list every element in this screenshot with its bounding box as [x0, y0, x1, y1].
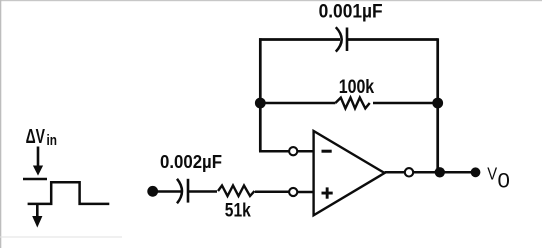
svg-text:ΔV: ΔV: [26, 126, 46, 148]
wire feedback top left segment: [259, 38, 340, 41]
resistor R2 100k: [335, 98, 369, 109]
output terminal node: [471, 167, 481, 177]
resistor R1 51k: [218, 186, 255, 197]
svg-text:0: 0: [498, 169, 510, 192]
wire R1 to noninverting input: [255, 191, 289, 194]
wire circle to op-amp - pin: [297, 150, 314, 153]
svg-text:0.001µF: 0.001µF: [319, 2, 383, 23]
capacitor C2 0.002µF: [177, 179, 188, 204]
noninverting input open circle: [289, 188, 297, 196]
svg-text:100k: 100k: [339, 76, 375, 98]
junction dot left of R2: [255, 98, 266, 109]
tick mark high-level bar: [23, 178, 47, 181]
wire output circle to feedback node: [413, 171, 441, 174]
wire 100k row left segment: [260, 102, 335, 105]
arrow lower (points down from baseline): [32, 204, 42, 228]
svg-text:51k: 51k: [225, 200, 251, 221]
inverting input open circle: [289, 147, 297, 155]
label ΔVin: [26, 126, 57, 149]
wire to inverting input: [259, 150, 289, 153]
svg-text:in: in: [47, 132, 58, 149]
wire 100k row right segment: [373, 102, 438, 105]
junction dot right of R2: [432, 98, 443, 109]
feedback output junction: [435, 167, 445, 177]
label Vo: [487, 163, 510, 192]
op-amp U1: [314, 131, 385, 215]
input step waveform: [28, 182, 110, 204]
svg-text:V: V: [487, 163, 497, 183]
wire C2 to R1: [189, 190, 217, 193]
wire feedback top right segment: [348, 38, 438, 41]
wire feedback right side down to output: [436, 38, 439, 172]
wire op-amp output to circle: [385, 171, 405, 174]
wire input terminal to C2: [153, 190, 181, 193]
wire junction to Vo terminal: [440, 171, 471, 174]
capacitor C1 0.001µF: [336, 27, 347, 51]
output open circle: [405, 168, 413, 176]
input terminal node: [147, 186, 158, 197]
wire circle to op-amp + pin: [297, 191, 314, 194]
wire feedback node down left side: [259, 38, 262, 151]
svg-text:0.002µF: 0.002µF: [160, 151, 222, 172]
arrow upper (points down to high level): [33, 147, 43, 176]
